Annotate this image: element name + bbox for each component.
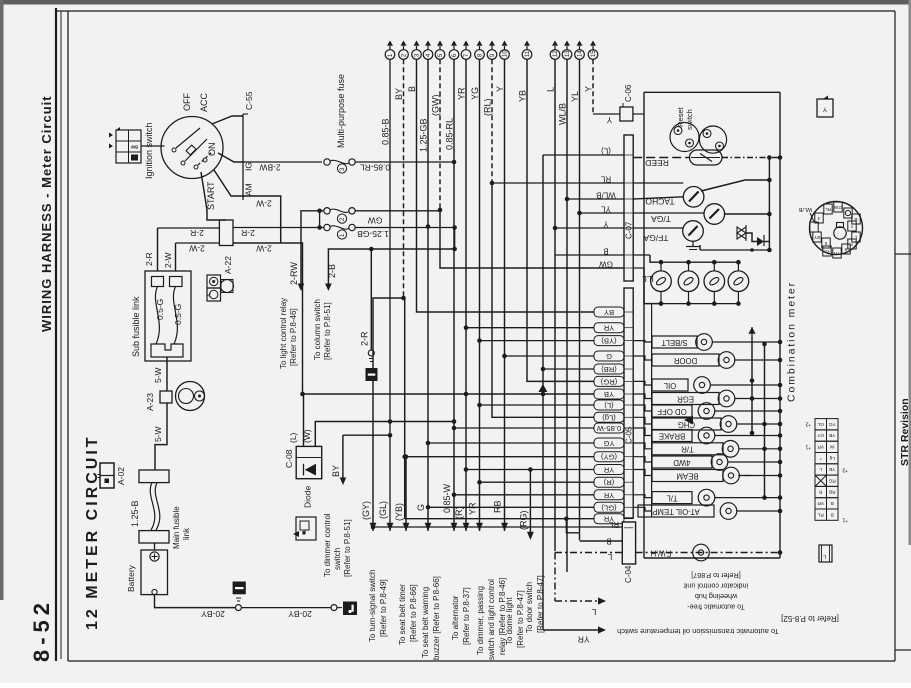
svg-text:Multi-purpose fuse: Multi-purpose fuse [336, 74, 346, 148]
svg-text:Y: Y [495, 86, 505, 92]
svg-text:(R): (R) [454, 507, 464, 520]
svg-text:W: W [829, 444, 834, 450]
svg-text:14: 14 [578, 50, 584, 57]
svg-text:11: 11 [525, 50, 531, 57]
svg-text:AM: AM [244, 183, 254, 196]
svg-text:To dome light: To dome light [505, 597, 514, 645]
svg-text:VR: VR [817, 500, 824, 506]
svg-text:BY: BY [331, 465, 341, 477]
svg-text:switch and light control: switch and light control [487, 579, 496, 660]
svg-text:ACC: ACC [199, 92, 209, 112]
svg-text:2-W: 2-W [163, 252, 173, 268]
svg-text:To alternator: To alternator [451, 595, 460, 640]
svg-text:S/BELT: S/BELT [661, 338, 688, 347]
svg-text:RL: RL [608, 520, 619, 529]
svg-text:(RB): (RB) [601, 365, 617, 374]
svg-text:YL: YL [824, 249, 830, 254]
svg-text:YL: YL [601, 204, 611, 213]
svg-text:YG: YG [470, 87, 480, 100]
svg-text:switch: switch [685, 109, 694, 130]
svg-text:(GW): (GW) [431, 95, 441, 117]
svg-text:2-W: 2-W [256, 198, 272, 208]
svg-text:(L): (L) [288, 432, 298, 443]
svg-text:B: B [831, 500, 834, 506]
svg-text:5-W: 5-W [153, 367, 163, 383]
svg-text:(R): (R) [603, 478, 614, 487]
svg-text:ON: ON [207, 143, 217, 157]
svg-text:F.W.H: F.W.H [651, 548, 672, 557]
svg-text:[Refer to P.8-46]: [Refer to P.8-46] [289, 308, 298, 366]
svg-text:To seat belt warning: To seat belt warning [421, 587, 430, 658]
svg-text:B: B [603, 246, 608, 255]
svg-text:RL: RL [817, 511, 823, 517]
svg-text:[Refer to P.8-47]: [Refer to P.8-47] [516, 590, 525, 648]
svg-text:G: G [606, 352, 612, 361]
svg-text:GW: GW [599, 259, 613, 268]
svg-text:B: B [407, 86, 417, 92]
svg-text:B: B [831, 511, 834, 517]
svg-text:Battery: Battery [126, 564, 136, 592]
svg-text:(L): (L) [604, 401, 614, 410]
svg-text:indicator control unit: indicator control unit [684, 582, 748, 591]
svg-text:C-05: C-05 [625, 426, 634, 444]
svg-text:WL/B: WL/B [596, 190, 616, 199]
svg-text:To seat belt timer: To seat belt timer [398, 584, 407, 645]
svg-text:buzzer [Refer to P.8-66]: buzzer [Refer to P.8-66] [432, 576, 441, 660]
svg-text:A-02: A-02 [116, 467, 126, 485]
svg-text:A-22: A-22 [223, 256, 233, 274]
svg-text:[Refer to P.8-51]: [Refer to P.8-51] [323, 302, 332, 360]
svg-text:[Refer to P.8-47]: [Refer to P.8-47] [536, 575, 545, 633]
svg-text:0.85-RL: 0.85-RL [360, 162, 391, 172]
svg-text:1.25-GB: 1.25-GB [357, 229, 389, 239]
svg-text:OIL: OIL [663, 381, 676, 390]
svg-text:RG: RG [828, 477, 835, 483]
svg-text:(GY): (GY) [601, 453, 618, 462]
svg-text:BY: BY [814, 235, 820, 240]
svg-text:RL: RL [825, 207, 831, 212]
svg-text:WIRING HARNESS - Meter Circui: WIRING HARNESS - Meter Circuit [39, 95, 54, 332]
svg-text:4: 4 [817, 216, 820, 221]
svg-text:YB: YB [518, 90, 528, 102]
svg-text:(RG): (RG) [519, 511, 529, 531]
svg-text:[Refer to P.8-37]: [Refer to P.8-37] [462, 587, 471, 645]
svg-text:12: 12 [553, 50, 559, 57]
svg-text:C-06: C-06 [624, 84, 633, 102]
svg-text:YR: YR [603, 491, 614, 500]
svg-text:YB: YB [829, 466, 835, 472]
svg-text:OD OFF: OD OFF [657, 407, 687, 416]
svg-text:YB: YB [604, 390, 614, 399]
svg-text:GL: GL [817, 421, 824, 427]
svg-text:YR: YR [578, 634, 590, 644]
svg-text:2-R: 2-R [360, 331, 370, 346]
svg-text:GW: GW [833, 205, 842, 210]
svg-text:Y: Y [850, 242, 853, 247]
svg-text:[Refer to P.8-51]: [Refer to P.8-51] [343, 519, 352, 577]
svg-text:20-BY: 20-BY [201, 609, 225, 619]
svg-text:Y: Y [584, 86, 594, 92]
svg-text:[Refer to P.867]: [Refer to P.867] [691, 571, 740, 580]
svg-text:L: L [591, 607, 596, 617]
svg-text:10: 10 [503, 50, 509, 57]
svg-text:(YB): (YB) [394, 503, 404, 521]
svg-text:0.5-G: 0.5-G [155, 299, 165, 320]
svg-text:Lg: Lg [829, 455, 835, 461]
svg-text:START: START [206, 181, 216, 210]
svg-text:2-BW: 2-BW [259, 162, 280, 172]
svg-text:6: 6 [824, 241, 827, 246]
svg-text:L: L [607, 552, 612, 561]
svg-text:2-B: 2-B [327, 264, 337, 278]
svg-text:(GL): (GL) [378, 501, 388, 519]
svg-text:G: G [416, 504, 426, 511]
svg-text:C-04: C-04 [624, 565, 633, 583]
svg-text:YR: YR [457, 87, 467, 100]
svg-text:[Refer to P.8-49]: [Refer to P.8-49] [379, 579, 388, 637]
svg-text:13: 13 [565, 50, 571, 57]
svg-text:L: L [819, 466, 822, 472]
svg-text:Y: Y [822, 105, 827, 112]
svg-text:EGR: EGR [677, 394, 694, 403]
svg-text:TF/GA: TF/GA [643, 233, 668, 243]
svg-text:BY: BY [394, 88, 404, 100]
svg-text:YL: YL [570, 91, 580, 102]
svg-text:C-55: C-55 [244, 91, 254, 110]
svg-text:To door switch: To door switch [525, 582, 534, 633]
svg-text:0.85-B: 0.85-B [381, 118, 391, 145]
svg-text:AT-OIL TEMP: AT-OIL TEMP [652, 507, 700, 516]
svg-text:2-R: 2-R [241, 228, 255, 238]
svg-text:To automatic transmission oil: To automatic transmission oil temperatur… [617, 627, 779, 636]
svg-text:(Lg): (Lg) [602, 413, 616, 422]
svg-text:2-R: 2-R [144, 252, 154, 266]
svg-text:[Refer to P.8-66]: [Refer to P.8-66] [409, 584, 418, 642]
svg-text:link: link [182, 527, 191, 540]
svg-text:0.5-G: 0.5-G [173, 304, 183, 325]
svg-text:1.25-B: 1.25-B [130, 500, 140, 527]
svg-text:Diode: Diode [303, 486, 313, 508]
svg-text:8-52: 8-52 [29, 598, 54, 662]
svg-text:REED: REED [645, 158, 669, 168]
svg-text:*3: *3 [842, 467, 847, 473]
svg-text:L: L [823, 553, 826, 559]
svg-text:BEAM: BEAM [676, 471, 698, 480]
svg-text:2-R: 2-R [190, 228, 204, 238]
svg-text:Y: Y [603, 219, 609, 228]
svg-text:RL: RL [600, 174, 611, 183]
svg-text:0.85-RL: 0.85-RL [445, 118, 455, 150]
svg-text:BY: BY [604, 308, 614, 317]
svg-text:8: 8 [844, 247, 847, 252]
svg-text:L: L [546, 87, 556, 92]
svg-text:OFF: OFF [182, 93, 192, 111]
svg-text:switch: switch [333, 548, 342, 570]
svg-text:To column switch: To column switch [313, 299, 322, 360]
svg-text:2-W: 2-W [189, 243, 205, 253]
svg-text:*1: *1 [805, 444, 810, 450]
svg-text:12 METER CIRCUIT: 12 METER CIRCUIT [84, 434, 101, 630]
svg-text:T/GA: T/GA [651, 214, 671, 224]
svg-text:BRAKE: BRAKE [659, 431, 685, 440]
svg-text:C-08: C-08 [284, 449, 294, 468]
svg-text:YR: YR [603, 324, 614, 333]
svg-text:To dimmer, passing: To dimmer, passing [476, 586, 485, 655]
svg-text:R: R [818, 489, 822, 495]
svg-text:[Refer to P.8-52]: [Refer to P.8-52] [781, 614, 839, 623]
svg-text:Y: Y [850, 224, 853, 229]
svg-text:1.25-GB: 1.25-GB [419, 118, 429, 152]
svg-text:Reset: Reset [676, 106, 685, 127]
svg-text:To automatic free-: To automatic free- [687, 603, 745, 612]
svg-text:2-RW: 2-RW [289, 262, 299, 285]
svg-text:T/L: T/L [666, 494, 678, 503]
svg-text:YG: YG [603, 439, 614, 448]
svg-text:wheeling hub: wheeling hub [695, 592, 738, 601]
svg-text:Sub fusible link: Sub fusible link [131, 296, 141, 357]
svg-text:(GY): (GY) [361, 501, 371, 520]
svg-text:IG: IG [244, 162, 254, 171]
svg-text:5-W: 5-W [153, 426, 163, 442]
svg-text:(RL): (RL) [483, 98, 493, 116]
svg-text:GW: GW [368, 215, 383, 225]
svg-text:To turn-signal switch: To turn-signal switch [368, 570, 377, 642]
svg-text:(YB): (YB) [601, 337, 617, 346]
svg-text:0.85-W: 0.85-W [596, 424, 621, 433]
svg-text:*1: *1 [842, 517, 847, 523]
svg-text:WL/B: WL/B [798, 206, 812, 212]
svg-text:YR: YR [833, 251, 840, 256]
svg-text:(W): (W) [302, 429, 312, 443]
svg-text:Main fusible: Main fusible [172, 506, 181, 549]
svg-text:YR: YR [468, 502, 478, 515]
svg-text:(L): (L) [601, 146, 611, 155]
svg-text:0.85-W: 0.85-W [442, 483, 452, 513]
svg-text:20-BY: 20-BY [288, 609, 312, 619]
svg-text:15: 15 [591, 50, 597, 57]
svg-text:Ignition switch: Ignition switch [144, 122, 154, 179]
svg-text:*2: *2 [805, 421, 810, 427]
svg-text:RB: RB [493, 500, 503, 513]
svg-text:RB: RB [829, 489, 836, 495]
svg-text:To dimmer control: To dimmer control [323, 513, 332, 577]
svg-text:2-W: 2-W [256, 243, 272, 253]
svg-text:A-23: A-23 [145, 393, 155, 411]
svg-text:GY: GY [816, 432, 824, 438]
svg-text:WL/B: WL/B [558, 103, 568, 125]
svg-text:STR Revision: STR Revision [899, 398, 911, 466]
svg-text:DOOR: DOOR [673, 356, 697, 365]
svg-text:4WD: 4WD [673, 458, 691, 467]
svg-text:YG: YG [828, 421, 835, 427]
svg-text:Combination meter: Combination meter [786, 281, 798, 402]
svg-text:*: * [820, 455, 822, 461]
svg-text:To light control relay: To light control relay [279, 298, 288, 369]
svg-text:Y: Y [606, 115, 612, 124]
svg-text:(RG): (RG) [600, 377, 617, 386]
svg-text:T/R: T/R [681, 445, 694, 454]
svg-text:L: L [302, 529, 308, 532]
svg-text:C-07: C-07 [625, 221, 634, 239]
svg-text:VR: VR [817, 444, 824, 450]
svg-text:YR: YR [603, 466, 614, 475]
svg-text:(GL): (GL) [601, 503, 617, 512]
svg-text:BW: BW [131, 144, 138, 149]
svg-text:YB: YB [829, 432, 835, 438]
